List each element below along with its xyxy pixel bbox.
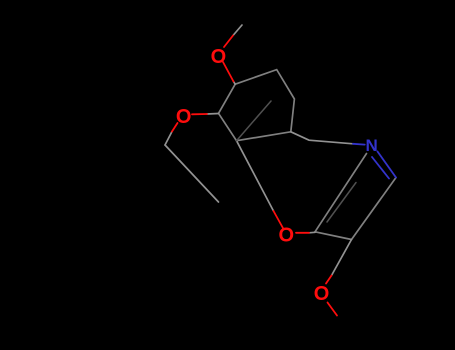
svg-text:O: O bbox=[279, 224, 295, 246]
svg-text:N: N bbox=[366, 136, 378, 155]
svg-text:O: O bbox=[211, 46, 227, 68]
svg-text:O: O bbox=[314, 283, 330, 305]
svg-text:O: O bbox=[176, 106, 192, 128]
